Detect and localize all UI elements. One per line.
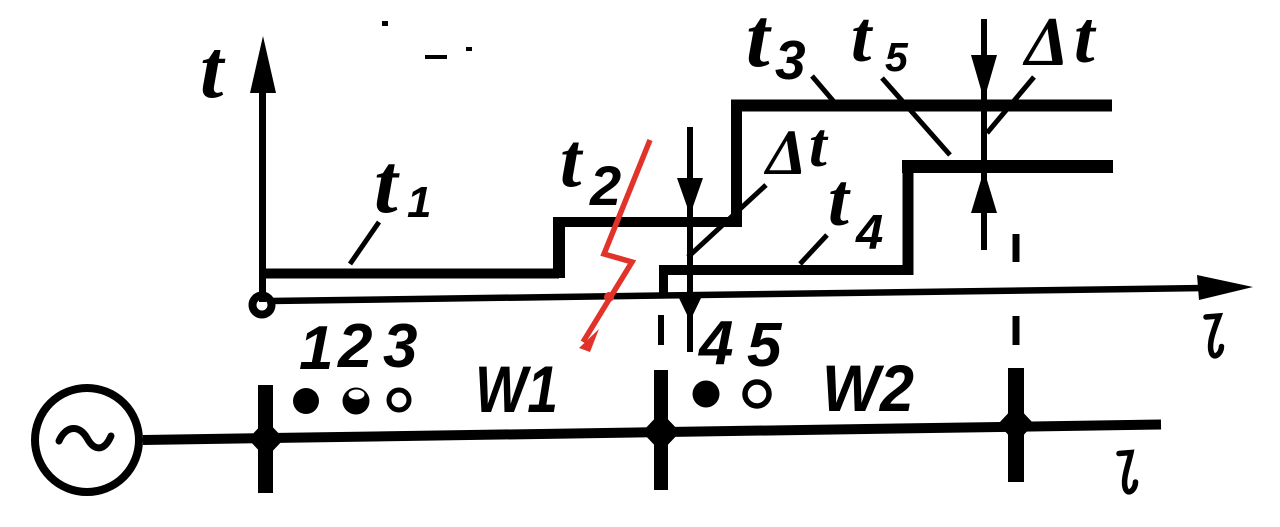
l-axis horizontal line [270,275,1253,301]
protection dot 2 (half) [343,388,370,415]
t-axis vertical line [250,36,276,302]
protection dot 5 (open) [745,382,769,406]
step t2-t3 vertical [731,101,742,227]
svg-text:5: 5 [747,311,783,380]
svg-text:1: 1 [299,314,333,383]
svg-text:t: t [1074,0,1097,79]
bus 3 [998,368,1034,482]
label t5 with leader [851,0,950,155]
stray scan speckles [382,21,472,59]
step t4-t5 vertical [903,160,914,275]
feeder line from generator [143,425,1161,441]
step t1-t2 vertical [553,221,565,278]
svg-text:3: 3 [383,312,417,381]
svg-text:3: 3 [775,29,806,91]
label t1 with leader [350,137,431,264]
l-axis label script ell (top) [1206,316,1222,356]
dashed boundary line at bus 2 [658,315,664,345]
curve t1 line [262,269,559,279]
svg-text:W1: W1 [475,352,558,426]
curve t5 line [902,160,1113,173]
svg-text:t: t [200,23,226,116]
curve t4 line [659,265,908,275]
svg-text:5: 5 [885,34,909,80]
label delta-t middle with leader [688,109,829,257]
label t4 with leader [800,159,883,264]
dimension arrow line at fault (x=690) [677,127,703,352]
svg-text:4: 4 [697,309,733,378]
protection dot 4 (filled) [693,381,720,408]
svg-text:t: t [828,159,851,242]
svg-text:t: t [374,137,400,231]
svg-text:t: t [746,0,772,85]
dimension arrow line right (x=984) [971,19,997,250]
label delta-t right with leader [987,0,1097,133]
bus 1 [248,385,284,493]
red fault lightning arrow [579,140,650,352]
svg-text:2: 2 [589,154,621,217]
origin circle node [253,296,272,315]
svg-text:Δ: Δ [763,117,807,189]
svg-text:t: t [851,0,874,77]
svg-text:2: 2 [337,312,372,381]
svg-text:W2: W2 [822,351,914,425]
protection dot 1 (filled) [293,388,319,414]
svg-text:t: t [809,109,829,180]
digits 4 5 [697,309,783,380]
dashed boundary line at bus 3 [1013,234,1020,345]
svg-text:1: 1 [407,178,431,227]
svg-text:4: 4 [855,206,883,260]
curve t2 line [553,217,742,227]
label t2 [560,117,621,217]
svg-text:Δ: Δ [1022,4,1069,81]
curve t4 start vertical [659,265,668,296]
generator G source circle [35,388,139,492]
label t3 with leader [746,0,835,103]
protection dot 3 (open) [389,390,409,410]
bus 2 [642,370,680,490]
l label bottom (script ell) [1119,453,1136,492]
digits 1 2 3 [299,312,417,383]
curve t3 line [731,100,1112,112]
svg-text:t: t [560,117,584,203]
